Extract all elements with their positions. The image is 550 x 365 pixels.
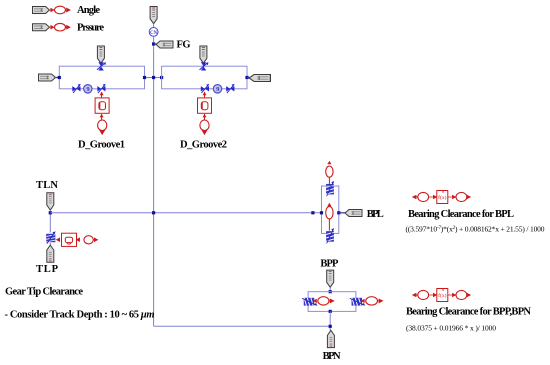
subsystem rect BPL — [322, 186, 339, 233]
link BPP left gauge arrow — [314, 299, 317, 302]
gauge BPP inner out-arrow — [329, 299, 334, 303]
annotation icon BPPBPN link1 — [429, 293, 437, 296]
junction BPN — [329, 325, 332, 328]
link BPL tag — [339, 212, 347, 214]
wire BPP down to BPN — [329, 311, 331, 330]
constant square S3 TLP — [62, 233, 77, 246]
leakage valve BPP right — [350, 298, 365, 306]
svg-text:BPL: BPL — [367, 209, 384, 220]
compensator P2 D_Groove2 — [213, 85, 221, 94]
subsystem rect D_Groove2 — [162, 66, 247, 89]
junction main crossing — [152, 76, 155, 79]
valve V3 bottom D_Groove1 — [97, 84, 105, 93]
wire tag to converter — [153, 24, 155, 28]
svg-text:- Consider Track Depth : 10 ~: - Consider Track Depth : 10 ~ 65 μm — [5, 309, 155, 320]
annotation icon BPL left arrow — [412, 195, 417, 199]
junction right D_Groove1 — [143, 76, 146, 79]
junction main crossing TLN line — [152, 211, 155, 214]
gauge BPP outer — [366, 297, 378, 305]
wire main vertical — [153, 36, 155, 326]
constant square S2 D_Groove2 — [198, 98, 212, 113]
link S3 to gauge arrow — [77, 238, 81, 241]
junction FG — [152, 42, 155, 45]
valve V1 top D_Groove1 — [97, 62, 106, 70]
subsystem rect D_Groove1 — [59, 66, 144, 89]
tag TLP — [47, 245, 54, 262]
annotation icon BPPBPN left arrow — [412, 293, 417, 297]
wire main horizontal TLN-BPL — [50, 212, 321, 214]
leakage valve TLP — [46, 231, 55, 243]
legend gauge Angle out-arrow — [66, 8, 70, 12]
svg-text:(38.0375 + 0.01966 * x )/ 1000: (38.0375 + 0.01966 * x )/ 1000 — [406, 324, 496, 333]
annotation icon BPL right arrow — [467, 195, 472, 199]
annotation icon BPL link2 — [448, 195, 456, 198]
svg-text:Gear Tip Clearance: Gear Tip Clearance — [5, 286, 83, 297]
svg-text:Angle: Angle — [77, 5, 100, 16]
leakage valve BPP left — [302, 298, 317, 306]
annotation icon BPL gauge1 — [418, 192, 429, 201]
gauge BPL top arrow up — [327, 161, 331, 164]
svg-text:Prssure: Prssure — [77, 22, 104, 33]
valve V5 bottom D_Groove2 — [201, 84, 209, 93]
tag BPN — [327, 330, 334, 347]
annotation icon BPL gauge2 — [456, 192, 467, 201]
svg-text:Bearing Clearance for BPP,BPN: Bearing Clearance for BPP,BPN — [406, 307, 531, 318]
svg-text:TLN: TLN — [36, 180, 58, 191]
legend link Prssure — [50, 26, 54, 29]
junction BPP bottom — [329, 310, 332, 313]
wire sensor stem D_Groove1 — [101, 92, 103, 98]
tag above valve V4 — [200, 46, 207, 63]
annotation icon BPL wire1 — [416, 196, 418, 198]
link BPP right gauge arrow — [362, 299, 365, 302]
tag BPP — [327, 270, 334, 287]
junction left D_Groove2 — [160, 76, 163, 79]
junction BPL left port — [320, 211, 323, 214]
annotation icon BPL fx box — [437, 190, 448, 203]
legend tag Angle — [33, 7, 50, 14]
junction input D_Groove1 — [58, 76, 61, 79]
wire S2 to gauge — [204, 114, 206, 120]
wire TLP valve to tag — [49, 243, 51, 246]
svg-text:D_Groove2: D_Groove2 — [180, 139, 227, 150]
annotation icon BPPBPN right arrow — [467, 293, 472, 297]
sensor arrow up into V3 — [100, 92, 104, 95]
annotation icon BPPBPN gauge1 — [418, 290, 429, 299]
valve V6 bottom-right D_Groove2 — [226, 84, 234, 93]
gauge G3 out-arrow — [94, 238, 98, 241]
valve V2 bottom-left D_Groove1 — [72, 84, 80, 93]
wire BPL inner gauge down — [328, 219, 330, 231]
link TLP sensor left arrow — [57, 238, 60, 241]
link FG tag — [154, 43, 157, 45]
svg-text:CN: CN — [150, 31, 158, 36]
junction BPP top — [329, 290, 332, 293]
legend gauge Prssure — [55, 23, 66, 31]
tag source top — [150, 7, 157, 24]
wire BPP tag down — [329, 288, 331, 292]
compensator P1 D_Groove1 — [84, 85, 92, 94]
junction TLN — [49, 211, 52, 214]
tag BPL — [345, 210, 362, 217]
gauge BPL inner — [326, 206, 333, 219]
gauge G3 TLP — [84, 236, 93, 244]
gauge BPL top — [326, 166, 333, 177]
legend gauge Angle — [55, 6, 66, 14]
gauge G1 D_Groove1 — [98, 120, 107, 131]
svg-text:D_Groove1: D_Groove1 — [78, 139, 125, 150]
junction right D_Groove2 — [245, 76, 248, 79]
sensor arrow up into V5 — [203, 92, 207, 95]
svg-text:TLP: TLP — [36, 264, 59, 275]
link input D_Groove1 — [56, 77, 60, 79]
tag above valve V1 — [97, 46, 104, 63]
wire sensor stem D_Groove2 — [204, 92, 206, 98]
gauge G1 down arrow — [100, 131, 104, 135]
wire TLN tag down — [49, 210, 51, 232]
junction BPL right port — [337, 211, 340, 214]
wire D_Groove1 to D_Groove2 — [145, 77, 162, 79]
leakage valve BPL bottom — [326, 228, 334, 243]
annotation icon BPPBPN fx box — [437, 288, 448, 301]
tag output D_Groove2 — [249, 75, 270, 82]
annotation icon BPPBPN gauge2 — [456, 290, 467, 299]
tag TLN — [47, 193, 54, 210]
annotation icon BPPBPN link2 — [448, 293, 456, 296]
gauge G2 D_Groove2 — [200, 120, 209, 131]
svg-text:FG: FG — [177, 40, 191, 51]
leakage valve BPL top — [326, 181, 334, 196]
constant square S1 D_Groove1 — [95, 98, 109, 113]
svg-text:BPN: BPN — [323, 351, 341, 362]
legend gauge Prssure out-arrow — [66, 25, 70, 29]
valve V4 top D_Groove2 — [200, 62, 209, 70]
annotation icon BPL link1 — [429, 195, 437, 198]
svg-text:Bearing Clearance for BPL: Bearing Clearance for BPL — [408, 209, 514, 220]
tag FG — [156, 41, 173, 48]
sensor arrow up into S1 — [100, 114, 104, 117]
wire BPL gauge to valve — [328, 177, 330, 184]
gauge BPL inner arrow up — [327, 203, 331, 206]
svg-text:BPP: BPP — [320, 258, 339, 269]
tag input D_Groove1 — [39, 74, 56, 81]
link output D_Groove2 — [247, 77, 250, 79]
legend link Angle — [50, 8, 54, 11]
junction BPL stub — [311, 211, 314, 214]
wire bottom horizontal to BPN — [154, 325, 331, 327]
sensor arrow up into S2 — [203, 114, 207, 117]
gauge BPP outer out-arrow — [378, 299, 383, 303]
legend tag Prssure — [33, 24, 50, 31]
gauge G2 down arrow — [203, 131, 207, 135]
annotation icon BPPBPN wire1 — [416, 294, 418, 296]
converter CN — [149, 28, 158, 37]
gauge BPP inner — [318, 297, 329, 305]
subsystem rect BPP — [308, 292, 356, 312]
svg-text:((3.597*10-7)*(x2) + 0.008162*: ((3.597*10-7)*(x2) + 0.008162*x + 21.55)… — [406, 225, 545, 234]
wire S1 to gauge — [101, 114, 103, 120]
